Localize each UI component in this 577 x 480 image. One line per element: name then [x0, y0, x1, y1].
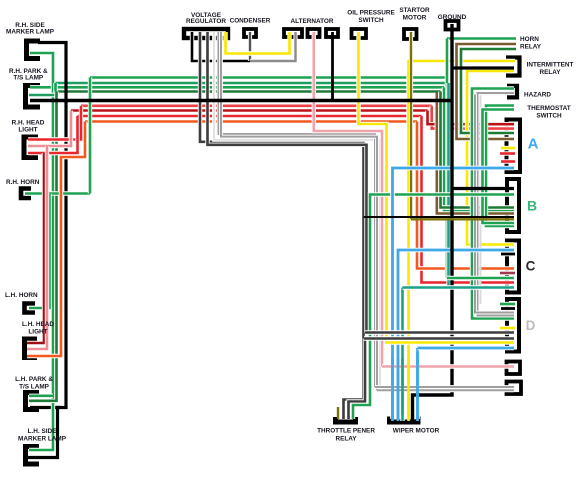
wire black zigzag to L.H. side marker	[28, 408, 60, 458]
node B	[527, 198, 537, 214]
label R.H. head light	[12, 120, 45, 134]
wire white x480.5	[480, 95, 482, 304]
wire dark gray VR pin2 staircase to throttle relay	[200, 32, 364, 419]
wire green R.H. side marker down x53	[29, 53, 53, 450]
wire blue wiper pin 1	[391, 415, 394, 421]
connector R.H. horn	[21, 189, 31, 199]
wire orange bus y121.5	[85, 119, 417, 123]
connector ground	[446, 21, 459, 30]
svg-text:LIGHT: LIGHT	[18, 127, 37, 134]
wire blue bus to connector A	[393, 168, 515, 419]
wire green vertical x447	[445, 39, 449, 279]
label L.H. horn	[5, 292, 38, 299]
wire green horn feed bus y77.5	[90, 75, 447, 79]
connector R.H. park & T/S lamp	[26, 86, 41, 108]
svg-text:D: D	[526, 318, 536, 333]
svg-text:L.H. SIDE: L.H. SIDE	[28, 428, 57, 435]
svg-text:REGULATOR: REGULATOR	[186, 18, 226, 25]
connector L.H. side marker lamp	[26, 447, 40, 465]
wire yellow stub connector A	[501, 146, 515, 150]
svg-text:L.H. HORN: L.H. HORN	[5, 292, 38, 299]
connector voltage regulator	[184, 29, 228, 38]
wire white VR pin4	[214, 32, 380, 391]
wire green horn relay line	[447, 36, 516, 40]
wire blue wiper vertical repaint 3	[416, 352, 419, 415]
wire dark green horn relay line to connector A	[461, 49, 516, 133]
wire dark gray into connector D lower	[364, 336, 514, 340]
wire black thin bus y217 to connector B	[364, 216, 515, 218]
svg-text:RELAY: RELAY	[520, 44, 542, 51]
wire green L.H. park pin1 tee	[29, 394, 53, 398]
wire green hazard to connector D	[472, 89, 514, 319]
svg-text:OIL PRESSURE: OIL PRESSURE	[347, 10, 395, 17]
label hazard	[524, 92, 551, 99]
svg-text:T/S LAMP: T/S LAMP	[13, 75, 44, 82]
wire black main bus (R.H. park lamp to ground)	[30, 99, 452, 102]
svg-text:HORN: HORN	[520, 36, 539, 43]
wire green bus y87.3 (R.H. park pin1)	[30, 85, 444, 89]
wire gray hazard to connector D	[478, 93, 515, 316]
svg-text:STARTOR: STARTOR	[399, 7, 430, 14]
label voltage regulator	[186, 12, 226, 25]
label startor motor	[399, 7, 430, 21]
wire green thermostat switch line 2 to connector B	[483, 110, 515, 224]
connector A	[507, 120, 521, 173]
wire dark green bus y91.5	[57, 89, 441, 93]
wire green thermostat switch line 1 to connector B	[486, 106, 514, 227]
wire yellow oil pressure switch	[359, 32, 387, 343]
wire green vertical x90 horn feed	[88, 78, 92, 194]
label throttle pener relay	[317, 427, 375, 442]
wire black R.H. side marker to L.H. park lamp	[30, 43, 66, 408]
svg-text:RELAY: RELAY	[539, 69, 561, 76]
label condenser	[230, 17, 271, 24]
wire gray into small connector 2 lower	[377, 388, 514, 392]
wire green stub connector D	[500, 302, 515, 306]
svg-text:THROTTLE PENER: THROTTLE PENER	[317, 427, 375, 434]
wire pink R.H. head light pin2	[28, 111, 71, 147]
connector condenser	[244, 29, 256, 37]
svg-text:WIPER MOTOR: WIPER MOTOR	[393, 427, 440, 434]
wire yellow VR pin to alternator	[226, 32, 290, 54]
label L.H. park & T/S lamp	[15, 376, 53, 391]
wire black stub connector D	[501, 306, 515, 311]
node A	[528, 136, 539, 153]
wire gray VR pin6	[221, 32, 377, 390]
svg-text:LIGHT: LIGHT	[28, 329, 47, 336]
wire black ground tee to connector B	[452, 187, 514, 190]
label oil pressure switch	[347, 10, 395, 24]
wire yellow into connector D	[385, 340, 514, 344]
svg-text:THERMOSTAT: THERMOSTAT	[527, 105, 571, 112]
wire dark gray into connector D	[365, 330, 514, 334]
label ground	[438, 14, 467, 21]
connector throttle pener relay	[336, 417, 356, 422]
svg-text:GROUND: GROUND	[438, 14, 467, 21]
connector L.H. park & T/S lamp	[26, 393, 40, 410]
wire light red bus y105.8	[81, 104, 432, 108]
wire green R.H. horn line	[25, 191, 90, 195]
wire brown horn relay line to connector A	[457, 44, 517, 139]
wire teal-green bus y83	[56, 81, 449, 85]
connector alternator 2	[308, 29, 320, 37]
svg-text:T/S LAMP: T/S LAMP	[19, 384, 50, 391]
svg-text:SWITCH: SWITCH	[536, 113, 562, 120]
wire green into connector C	[447, 276, 514, 280]
svg-text:R.H. HORN: R.H. HORN	[6, 179, 40, 186]
wire blue bus to connector C	[398, 250, 514, 419]
wire teal wiper vertical x402.5	[400, 288, 404, 422]
connector hazard	[507, 86, 517, 98]
wire dark red x44 to L.H. head light	[27, 153, 44, 343]
label R.H. park & T/S lamp	[9, 68, 48, 82]
connector intermittent relay	[506, 58, 520, 76]
connector alternator 3	[326, 29, 338, 37]
connector C	[507, 241, 519, 293]
wire black ground tee to intermittent relay	[452, 66, 514, 69]
svg-text:ALTERNATOR: ALTERNATOR	[291, 18, 334, 25]
svg-text:L.H. PARK &: L.H. PARK &	[15, 376, 53, 383]
node D	[526, 318, 536, 333]
connector wiper motor	[390, 417, 419, 423]
svg-text:B: B	[527, 198, 537, 214]
wire dark red bus y110.5	[71, 108, 428, 112]
wire blue wiper pin 2	[397, 415, 400, 421]
wire black ground down to wiper motor	[413, 24, 453, 420]
wire red R.H. head light pin3	[28, 116, 78, 153]
wire orange to connector C	[417, 122, 514, 269]
wire green R.H. park pin2 to bus y83	[29, 83, 56, 95]
wire gray twin to connector D	[475, 95, 514, 313]
svg-text:MOTOR: MOTOR	[403, 14, 427, 21]
connector L.H. head light	[25, 339, 38, 358]
connector R.H. side marker lamp	[27, 41, 41, 59]
svg-text:SWITCH: SWITCH	[358, 17, 384, 24]
wire light red to connector A	[432, 106, 514, 129]
wire maroon stub connector C	[500, 271, 515, 275]
small connector 1	[507, 362, 521, 375]
wire gray into small connector 2	[375, 385, 514, 389]
wire pink x47 to L.H. head light	[27, 146, 47, 349]
connector R.H. head light	[24, 137, 38, 158]
wire red bus y116	[78, 114, 422, 118]
wire red to connector C	[422, 116, 515, 283]
svg-text:INTERMITTENT: INTERMITTENT	[527, 62, 574, 69]
svg-text:CONDENSER: CONDENSER	[230, 17, 271, 24]
svg-text:C: C	[526, 259, 536, 274]
wire black stub connector C	[501, 252, 515, 257]
wire pink alternator wire	[314, 32, 382, 367]
wire blue wiper pin 3	[416, 415, 419, 421]
label L.H. side marker lamp	[18, 428, 67, 443]
connector alternator 1	[284, 29, 302, 37]
wire olive bus into connector B	[411, 218, 514, 220]
label R.H. horn	[6, 179, 40, 186]
label alternator	[291, 18, 334, 25]
wire black VR pin1 to condenser link y61	[192, 32, 252, 61]
wire teal x448.5 to connector C	[446, 83, 450, 288]
wire red stub connector A	[500, 151, 515, 155]
wire blue wiper vertical repaint 2	[397, 358, 400, 415]
wire yellow wiper vertical repaint	[407, 358, 410, 415]
wire dark red to connector A	[428, 111, 515, 125]
node C	[526, 259, 536, 274]
label thermostat switch	[527, 105, 571, 120]
wire green x49.5 to L.H. horn	[29, 194, 50, 309]
wire blue into connector D	[418, 346, 515, 351]
small connector 2	[507, 382, 522, 395]
svg-text:R.H. HEAD: R.H. HEAD	[12, 120, 45, 127]
wire yellow bus to intermittent relay and wiper	[409, 61, 516, 419]
connector L.H. horn	[25, 304, 36, 313]
svg-text:A: A	[528, 136, 539, 153]
connector startor motor	[404, 29, 417, 39]
wire pink into small connector 1	[382, 364, 514, 368]
label intermittent relay	[527, 62, 574, 77]
svg-text:MARKER LAMP: MARKER LAMP	[6, 29, 55, 36]
wire gray condenser-alternator link	[248, 32, 252, 61]
label wiper motor	[393, 427, 440, 434]
wire olive startor motor wire	[409, 32, 413, 219]
wire black wiper pin	[411, 415, 414, 421]
wire red R.H. head light pin1	[28, 106, 81, 140]
wire blue wiper motor vertical	[415, 348, 420, 419]
wire dark green x440.5 to connector B	[441, 92, 515, 208]
wire dark gray VR pin3 staircase	[208, 32, 367, 333]
svg-text:MARKER LAMP: MARKER LAMP	[18, 436, 67, 443]
wire yellow intermittent relay to connector C	[467, 71, 514, 245]
wire brown x436.8 to connector B	[437, 93, 514, 214]
wire green x444 to connector B	[444, 87, 514, 211]
wire teal into connector C	[403, 285, 515, 289]
wire orange jog to L.H. head light	[27, 122, 85, 357]
wire teal wiper vertical repaint	[401, 358, 404, 415]
connector B	[507, 179, 519, 232]
svg-text:L.H. HEAD: L.H. HEAD	[22, 321, 54, 328]
wire green throttle relay to connector B	[353, 195, 514, 420]
wire olive throttle relay stub	[337, 407, 339, 419]
label horn relay	[520, 36, 542, 51]
wire yellow stub connector D	[500, 326, 515, 330]
connector D	[507, 299, 519, 352]
label L.H. head light	[22, 321, 54, 336]
wire black alternator pin to main bus	[331, 32, 334, 101]
connector oil pressure switch	[352, 29, 367, 38]
wire yellow wiper pin	[407, 415, 410, 421]
svg-text:HAZARD: HAZARD	[524, 92, 551, 99]
label R.H. side marker lamp	[6, 22, 55, 36]
wire gray link to alternator	[250, 32, 296, 61]
wire dark gray to throttle relay	[349, 339, 366, 420]
wire red stub 2 connector A	[501, 159, 515, 163]
wire gray VR pin5	[219, 32, 376, 387]
wire dark green x56.5 to L.H. park pin2	[29, 92, 57, 401]
svg-text:RELAY: RELAY	[335, 435, 357, 442]
wire blue wiper vertical repaint 1	[391, 358, 394, 415]
